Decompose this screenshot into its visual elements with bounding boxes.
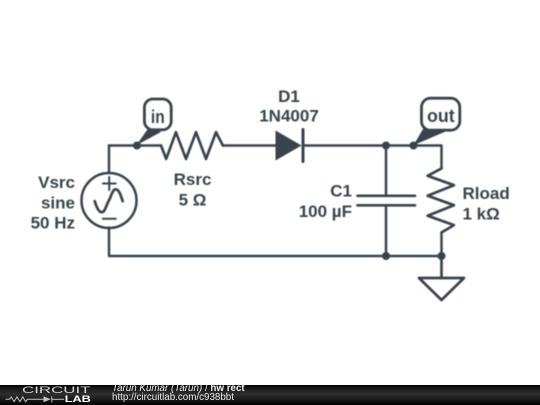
- svg-text:LAB: LAB: [65, 394, 91, 405]
- node out flag: [414, 98, 460, 145]
- diode D1: [276, 130, 304, 162]
- svg-text:Vsrc: Vsrc: [38, 173, 75, 192]
- label Rload "1 kΩ": [463, 184, 510, 224]
- footer credit text: [112, 384, 245, 402]
- svg-text:Rload: Rload: [463, 184, 510, 203]
- svg-text:C1: C1: [330, 182, 352, 201]
- label C1 "100 µF": [299, 182, 352, 222]
- svg-text:1N4007: 1N4007: [259, 107, 319, 126]
- ground: [419, 256, 464, 300]
- svg-text:5 Ω: 5 Ω: [179, 190, 207, 209]
- wire Rload bottom lead: [440, 233, 442, 257]
- junction out node: [410, 142, 418, 150]
- svg-text:Rsrc: Rsrc: [174, 170, 212, 189]
- junction in node: [133, 142, 141, 150]
- capacitor C1: [358, 196, 416, 206]
- resistor Rload: [428, 168, 454, 232]
- svg-text:out: out: [427, 105, 455, 126]
- junction C1 bottom: [382, 252, 390, 260]
- voltage source Vsrc: [82, 173, 137, 228]
- label D1 "1N4007": [259, 87, 319, 126]
- label Rsrc "5 Ω": [174, 170, 212, 209]
- label Vsrc "sine 50 Hz": [31, 173, 75, 233]
- wire Rsrc to D1: [223, 144, 276, 146]
- CircuitLab logo: [0, 385, 110, 405]
- svg-text:sine: sine: [41, 193, 75, 212]
- wire top rail left (source to Rsrc): [109, 144, 161, 146]
- svg-text:1 kΩ: 1 kΩ: [463, 205, 500, 224]
- node in flag: [136, 99, 171, 145]
- wire D1 to top-right corner: [303, 146, 442, 169]
- svg-text:100 µF: 100 µF: [299, 202, 352, 221]
- svg-text:in: in: [151, 106, 165, 127]
- wire C1 bottom lead: [385, 205, 387, 256]
- junction C1 top: [382, 142, 390, 150]
- svg-text:50 Hz: 50 Hz: [31, 214, 75, 233]
- resistor Rsrc: [161, 132, 223, 159]
- svg-text:D1: D1: [278, 87, 300, 106]
- junction ground node: [438, 252, 446, 260]
- wire bottom rail: [109, 228, 442, 257]
- wire C1 top lead: [385, 146, 387, 196]
- wire source top lead: [108, 146, 110, 174]
